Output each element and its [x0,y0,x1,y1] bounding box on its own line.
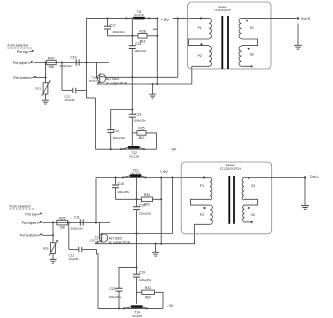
winding P1 (L) [200,178,212,201]
svg-text:200u/16v: 200u/16v [71,226,84,230]
wire S1-S2 link bracket (L) [244,199,258,205]
resistor R20 [46,56,56,69]
svg-text:Out L: Out L [310,175,319,179]
svg-text:C18: C18 [118,182,124,186]
resistor R28 8K2 [138,30,147,44]
ground pot (R) [42,94,49,104]
wire input line (R) [34,62,109,64]
transistor T14 AC128 (L bottom output) [123,305,148,318]
wire R32 to emitter bus (L) [153,198,163,200]
svg-text:OC71: OC71 [90,239,98,243]
wire pot drop (R) [44,61,46,82]
winding S2 (L) [243,205,256,222]
svg-text:8K2: 8K2 [144,203,150,207]
svg-text:C11: C11 [74,215,80,219]
winding P2 (R) [198,46,212,66]
wire emitter line down to -9V rail (R) [95,98,97,149]
svg-text:15K: 15K [59,225,66,229]
wire R31 to -9V rail (L) [154,292,163,308]
label Pot top (L) [25,213,41,217]
label Pot top (R) [17,50,33,54]
capacitor C12 10u/25v (R) [61,61,96,102]
svg-text:C20: C20 [110,287,116,291]
core laminations (R) [221,16,229,69]
label from selector (L) [10,204,36,209]
svg-text:S1: S1 [250,26,254,30]
svg-text:R28: R28 [139,30,145,34]
svg-text:100u/25v: 100u/25v [109,295,122,299]
wire R25 to -9V rail (R) [146,133,157,149]
resistor R33 [57,216,68,229]
svg-text:AC128: AC128 [129,155,139,159]
wire emitter bus vertical (R) [153,17,159,84]
ground Out R [294,45,302,49]
svg-text:R32: R32 [144,193,150,197]
node P2 phase dot (L) [203,207,205,209]
svg-text:8K2: 8K2 [139,136,145,140]
svg-text:R35: R35 [43,247,49,251]
label ALT B&O ac output PCB (R) [106,77,128,85]
svg-text:AC128: AC128 [132,314,142,318]
svg-text:R20: R20 [48,56,54,60]
svg-text:8K2: 8K2 [145,295,151,299]
svg-text:R31: R31 [145,286,151,290]
node input junction (R) [85,61,87,63]
wire output line to transformer P2 (L) [95,224,210,244]
wire P1-P2 link bracket (R) [189,39,210,46]
winding S2 (R) [239,46,254,66]
svg-text:C10: C10 [70,55,76,59]
svg-text:C15: C15 [135,113,141,117]
svg-text:R25: R25 [138,127,144,131]
svg-text:ac output PCB: ac output PCB [106,81,128,85]
svg-text:Pot wiper: Pot wiper [22,221,38,225]
capacitor C18 100u/25v [112,176,130,199]
svg-text:10u/25v: 10u/25v [65,98,76,102]
wire S1 to Out L [244,177,304,179]
wire C18 to R32 (L) [116,198,142,200]
ground mid (R) [149,83,156,98]
wire left vertical from rail to input (R) [85,18,87,98]
label ALT B&O ac output PCB (L) [109,236,131,244]
wire S2 stub (L) [244,221,253,223]
svg-text:100u/25v: 100u/25v [139,212,152,216]
wire -9V rail (R) [96,148,157,150]
svg-text:+ 9V: + 9V [160,169,169,174]
label from selector (R) [8,43,33,48]
wire -9V rail (L) [98,307,163,309]
wire pot drop (L) [52,221,54,242]
svg-text:JT-123-FLPCH: JT-123-FLPCH [214,9,231,12]
wire +9V rail (L channel) [96,177,210,179]
node S1 phase dot (L) [248,177,250,179]
transistor T11 AC176 (R top output) [125,10,150,20]
svg-text:R21: R21 [35,87,41,91]
svg-text:Pot wiper: Pot wiper [13,61,29,65]
node P2 phase dot (R) [200,43,202,45]
svg-text:P2: P2 [198,54,202,58]
capacitor C11 200u/16v [71,215,84,230]
svg-text:- 9V: - 9V [167,304,174,308]
transistor T9 driver (L) [90,223,107,244]
svg-text:100u/10v: 100u/10v [112,30,125,34]
svg-text:AC176: AC176 [134,13,144,17]
ground mid (L) [152,243,159,256]
svg-text:100u/10v: 100u/10v [113,136,126,140]
capacitor C17 100u/10v [104,17,125,35]
svg-text:10u/25v: 10u/25v [69,257,80,261]
capacitor C14 100u/10v [107,108,133,149]
label Pot wiper (L) [22,221,42,225]
wire input line (L) [43,222,110,224]
transformer TR2 enclosure (L) [181,162,272,234]
capacitor C13 100u/10v [129,42,147,115]
svg-text:S2: S2 [251,213,255,217]
ground pot (L) [50,254,57,264]
svg-text:- 9V: - 9V [169,148,176,152]
svg-text:C13: C13 [135,42,141,46]
node P1 phase dot (L) [203,176,205,178]
svg-text:200u/16v: 200u/16v [60,64,73,68]
wire R28 to emitter bus (R) [147,35,158,37]
svg-text:100u/25v: 100u/25v [139,278,152,282]
transformer TR1 enclosure (R) [188,2,272,69]
node Out R terminal [297,17,299,19]
wire Out L to ground [304,177,306,205]
svg-text:Pot bottom: Pot bottom [13,76,30,80]
wire S2 stub (R) [242,65,253,67]
svg-text:P2: P2 [200,213,204,217]
label Pot wiper (R) [13,61,33,65]
wire collector line to rail (L) [108,176,174,234]
svg-text:C19: C19 [139,271,145,275]
svg-text:Pot top: Pot top [17,50,28,54]
wire central line base T11 (R) [131,18,133,45]
wire Out R to ground [297,24,299,46]
capacitor C20 100u/25v [109,266,138,308]
potentiometer R21 (volume, R) [35,81,50,96]
winding S1 (R) [239,18,254,38]
wire Pot bottom to pot (R) [36,76,47,78]
svg-text:R33: R33 [59,216,65,220]
svg-text:Pot bottom: Pot bottom [20,234,37,238]
svg-text:from selector: from selector [8,43,30,47]
wire S1-S2 link bracket (R) [242,39,258,46]
transistor T13 AC176 (L top output) [122,168,147,178]
wire emitter bus vertical (L) [160,176,162,243]
svg-text:S1: S1 [251,184,255,188]
wire collector line to rail (R) [106,17,179,78]
label Jensen JT-123-FLPCH (R) [214,5,231,12]
transistor T10 driver (R) [89,63,106,85]
svg-text:from selector: from selector [10,204,32,208]
svg-text:P1: P1 [198,26,202,30]
resistor R32 8K2 [142,193,153,207]
winding P2 (L) [200,205,212,224]
svg-text:JT-123-FLPCH: JT-123-FLPCH [220,167,242,171]
wire left vertical from rail to input (L) [95,178,97,223]
node S2 phase dot (L) [248,207,250,209]
capacitor C16 100u/25v [133,204,152,275]
capacitor C19 100u/25v [133,271,152,304]
node Out L terminal [304,176,306,178]
wire P1-P2 link bracket (L) [191,199,211,205]
capacitor C12 10u/25v (L) [68,221,98,308]
svg-text:100u/10v: 100u/10v [134,49,147,53]
label Pot bottom (R) [13,76,35,80]
svg-text:100u/25v: 100u/25v [133,118,146,122]
ground Out L [301,206,309,210]
svg-text:Out R: Out R [301,17,311,21]
svg-text:Pot top: Pot top [25,213,36,217]
svg-text:15K: 15K [48,65,55,69]
wire S1 to Out R [242,17,297,19]
wire central line base T13 (L) [136,178,138,207]
wire C17 to R28 (R) [108,35,139,37]
wire output line to transformer P2 (R) [97,66,209,85]
svg-text:AC176: AC176 [131,171,141,175]
resistor R25 8K2 [132,127,146,140]
node S1 phase dot (R) [246,20,248,22]
potentiometer R35 (volume, L) [43,240,58,255]
node input junction (L) [95,221,97,223]
label Pot bottom (L) [20,234,42,238]
svg-text:S2: S2 [250,52,254,56]
svg-text:P1: P1 [200,184,204,188]
core laminations (L) [228,176,235,224]
svg-text:+ 9V: + 9V [161,17,170,22]
svg-text:C16: C16 [139,204,145,208]
wire +9V rail (R channel) [86,17,209,19]
svg-text:OC71: OC71 [89,79,97,83]
transistor T12 AC128 (R bottom output) [120,146,145,159]
svg-text:C17: C17 [110,24,116,28]
winding P1 (R) [198,18,212,38]
label Jensen JT-123-FLPCH (L) [220,163,242,171]
svg-text:100u/25v: 100u/25v [117,190,130,194]
wire Pot bottom to pot (L) [42,234,54,236]
capacitor C10 200u/16v [60,55,80,68]
node P1 phase dot (R) [200,17,202,19]
svg-text:C14: C14 [113,129,119,133]
capacitor C15 100u/25v [129,113,146,147]
winding S1 (L) [242,178,255,201]
resistor R31 8K2 [137,286,155,299]
node S2 phase dot (R) [248,48,250,50]
